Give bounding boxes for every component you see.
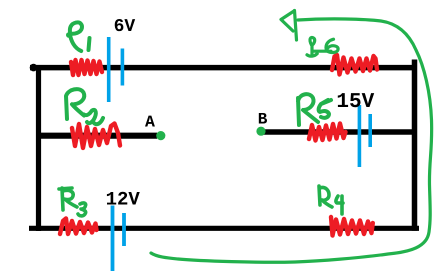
resistor R1: [71, 60, 102, 75]
wire top: [30, 64, 414, 72]
svg-text:B: B: [258, 111, 268, 129]
resistor R3: [60, 219, 97, 235]
wire middle right (node B to right): [262, 129, 412, 135]
battery 15V plate short: [368, 114, 372, 147]
node B dot: [256, 127, 265, 136]
label R3 (handwritten): [59, 188, 86, 216]
label R2 (handwritten): [66, 89, 103, 124]
battery 12V plate long: [111, 206, 115, 272]
label R5 (handwritten): [298, 94, 331, 125]
battery 12V plate short: [122, 213, 126, 246]
label R1 (handwritten): [66, 22, 90, 51]
wire left vertical: [36, 65, 41, 231]
battery 6V plate long: [107, 37, 111, 102]
resistor R6: [332, 55, 377, 75]
resistor R2: [72, 124, 120, 149]
resistor R5: [309, 124, 346, 141]
svg-text:6V: 6V: [114, 17, 136, 37]
current loop arrow (green annotation): [151, 11, 432, 263]
wire bottom: [29, 226, 419, 231]
svg-text:15V: 15V: [336, 91, 374, 114]
node A dot: [156, 131, 165, 140]
label R4 (handwritten): [319, 186, 343, 214]
svg-text:A: A: [145, 112, 155, 131]
label R6 (handwritten): [307, 37, 338, 56]
resistor R4: [331, 217, 373, 236]
battery 6V plate short: [121, 49, 125, 86]
svg-text:12V: 12V: [106, 188, 141, 210]
battery 15V plate long: [358, 105, 362, 167]
wire middle left (to node A): [36, 133, 157, 139]
wire right vertical: [412, 60, 418, 231]
